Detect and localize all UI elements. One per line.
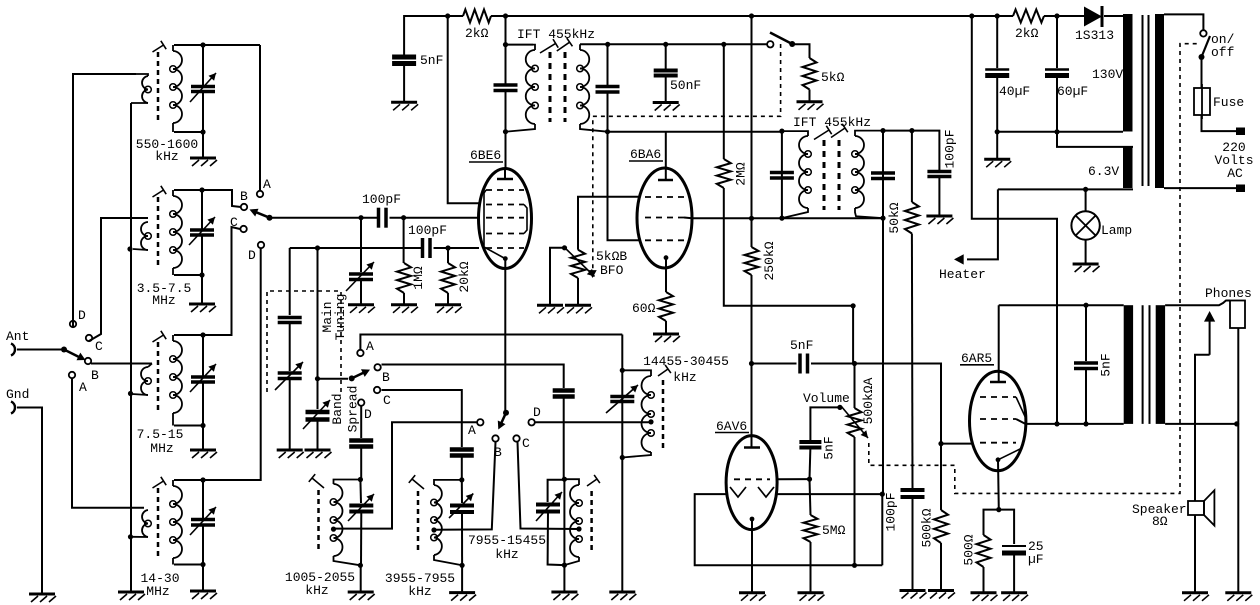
contact A S2	[257, 177, 271, 197]
wire 50nF drop	[665, 44, 667, 69]
svg-text:Fuse: Fuse	[1213, 95, 1244, 110]
label L7 unit	[495, 547, 518, 562]
coil L1 primary	[131, 74, 151, 103]
node mixer grid3	[358, 215, 363, 220]
node 6AV6 grid	[807, 477, 812, 482]
node bus 6BE6 screen	[445, 13, 450, 18]
wire IFT1 cap bot	[505, 91, 507, 132]
resistor R12 500ohm	[962, 534, 991, 567]
capacitor C9 50nF	[654, 71, 678, 76]
ground lamp	[1073, 240, 1100, 272]
ground osc tank	[609, 592, 636, 600]
wire L1 bottom	[174, 131, 203, 133]
variable capacitor C3a	[190, 364, 216, 392]
transformer T2 core	[1143, 305, 1150, 424]
label C14	[822, 436, 837, 459]
6AR5 cathode	[996, 449, 1021, 463]
svg-text:MHz: MHz	[152, 293, 175, 308]
capacitor C16 40uF	[985, 70, 1009, 76]
wire det line	[882, 218, 884, 494]
wire sec bottom	[1165, 423, 1237, 425]
ground C9	[653, 76, 680, 111]
fuse F1	[1194, 84, 1210, 119]
IFT1 slug marks	[540, 38, 572, 53]
wire 40uF bot	[996, 76, 998, 132]
svg-text:Lamp: Lamp	[1101, 223, 1132, 238]
ground BFO pot	[565, 278, 592, 313]
label BFO	[600, 263, 624, 278]
svg-text:60µF: 60µF	[1057, 84, 1088, 99]
wire 1M riser	[403, 218, 405, 263]
svg-text:2kΩ: 2kΩ	[1015, 26, 1039, 41]
wire D to L1 primary	[73, 74, 136, 327]
wire L2 top	[174, 190, 241, 207]
wire 6BA6 screen	[684, 217, 883, 220]
svg-text:kHz: kHz	[408, 584, 431, 599]
label fuse	[1213, 95, 1244, 110]
phones tip arrow	[1204, 311, 1215, 355]
node IFT2 sec top	[880, 128, 885, 133]
node 5nF out top	[1083, 303, 1088, 308]
wire diode left	[695, 494, 883, 565]
ground gnd terminal	[29, 594, 56, 602]
svg-text:MHz: MHz	[150, 441, 173, 456]
svg-text:100pF: 100pF	[362, 192, 401, 207]
IFT1 secondary coil	[577, 44, 608, 131]
wire pot top	[854, 364, 856, 409]
svg-text:6BE6: 6BE6	[470, 148, 501, 163]
wire 0V rail	[997, 131, 1123, 133]
wire 6AR5 plate	[998, 305, 1000, 372]
label C18	[1099, 353, 1114, 376]
node AVC 2M	[721, 42, 726, 47]
svg-text:60Ω: 60Ω	[632, 301, 656, 316]
wire C2a bottom	[201, 235, 203, 275]
svg-text:Ant: Ant	[6, 329, 29, 344]
node L7 tap	[576, 526, 581, 531]
slug T mark L4	[153, 477, 167, 488]
wire padder B down	[563, 397, 565, 480]
switch BFO arm	[770, 33, 795, 48]
svg-text:6AR5: 6AR5	[961, 351, 992, 366]
svg-text:5MΩ: 5MΩ	[822, 523, 846, 538]
svg-text:50kΩ: 50kΩ	[887, 202, 902, 233]
potentiometer 5kB BFO	[563, 246, 595, 278]
wire C1a bottom	[202, 93, 204, 132]
variable capacitor trimmer L6	[449, 494, 474, 519]
svg-text:20kΩ: 20kΩ	[457, 261, 472, 292]
IFT1 primary coil	[506, 45, 539, 132]
svg-text:Gnd: Gnd	[6, 387, 29, 402]
contact C S4	[513, 435, 530, 451]
label L3 unit	[150, 441, 173, 456]
wire IFT2 prim cap	[781, 131, 783, 218]
svg-text:6BA6: 6BA6	[630, 147, 661, 162]
capacitor C5 100pF	[379, 208, 387, 228]
ground L6	[449, 565, 476, 600]
svg-text:14455-30455: 14455-30455	[643, 354, 729, 369]
svg-text:kHz: kHz	[673, 370, 696, 385]
svg-text:C: C	[383, 393, 391, 408]
capacitor C14 5nF	[799, 442, 821, 448]
wire 6AR5 screen	[1016, 419, 1124, 424]
coil L1 secondary	[170, 45, 182, 132]
wire pot bottom	[854, 437, 856, 565]
resistor R11 500kohm	[920, 508, 949, 547]
node L1 top	[200, 42, 205, 47]
wire B to L3 primary	[91, 363, 152, 365]
wire 0V to 6.3V	[1057, 132, 1133, 147]
wire B+ bus	[404, 16, 463, 57]
svg-text:Heater: Heater	[939, 267, 986, 282]
dashed BFO link	[593, 44, 781, 273]
node L5 top	[358, 477, 363, 482]
wire mains top	[1164, 14, 1203, 30]
variable capacitor band spread	[303, 400, 330, 429]
terminal mains 1	[1236, 128, 1245, 136]
band switch S4 pole	[498, 410, 509, 430]
contact D S1	[70, 308, 86, 327]
capacitor IFT1 primary	[494, 85, 518, 91]
label L4 range	[140, 571, 179, 586]
node L3 top	[200, 332, 205, 337]
wire padder C down	[461, 456, 463, 480]
label band spread 2	[346, 386, 361, 433]
svg-text:MHz: MHz	[146, 584, 169, 599]
ground L5	[348, 565, 375, 600]
wire sec top	[1165, 301, 1230, 306]
label L8 unit	[673, 370, 696, 385]
wire C5 to tube	[390, 217, 479, 219]
wire C spread line	[382, 390, 462, 447]
IFT2 core	[824, 140, 839, 210]
variable capacitor C2a	[189, 217, 215, 245]
ground main B	[348, 280, 375, 313]
svg-text:100pF: 100pF	[884, 492, 899, 531]
node bus B+ out	[969, 13, 974, 18]
label L2 unit	[152, 293, 175, 308]
wire C to L2 primary	[89, 218, 148, 341]
resistor R6 5kohm	[803, 58, 845, 90]
wire screen drop	[448, 16, 479, 203]
wire 50k drop	[911, 131, 913, 202]
svg-text:100pF: 100pF	[408, 223, 447, 238]
label BFO pot	[596, 249, 627, 264]
ground 6AV6 cathode	[739, 593, 766, 601]
ground C11	[926, 177, 953, 225]
capacitor C13 5nF	[800, 354, 808, 374]
transformer T1 core	[1143, 15, 1149, 186]
band switch S3 pole	[349, 369, 370, 381]
node L4 primary return	[128, 534, 133, 539]
6BA6 plate bar	[658, 170, 673, 180]
node bus IFT2	[749, 13, 754, 18]
wire D spread line	[360, 406, 362, 438]
label L2 range	[137, 281, 192, 296]
wire 6BE6 cathode down	[504, 259, 506, 413]
wire L5 trimmer top	[359, 480, 362, 504]
label volume	[803, 391, 850, 406]
svg-text:5kΩB: 5kΩB	[596, 249, 627, 264]
ground speaker	[1182, 593, 1209, 601]
svg-text:5nF: 5nF	[822, 436, 837, 459]
core L4	[157, 488, 160, 556]
ground C12	[900, 591, 927, 599]
svg-text:Spread: Spread	[346, 386, 361, 433]
variable capacitor C1a	[190, 73, 216, 102]
label C15a	[1028, 539, 1044, 554]
wire IFT1 sec top	[580, 43, 608, 45]
coil L2 primary	[133, 222, 151, 250]
core L1	[157, 52, 160, 122]
wire 6AR5 cathode down	[997, 460, 1000, 510]
wire A S4 to tap	[334, 422, 478, 528]
node 0V 60uF	[1054, 129, 1059, 134]
node L2 primary return	[127, 246, 132, 251]
wire IFT1 cap top	[505, 45, 507, 85]
wire mains bottom	[1164, 187, 1236, 189]
svg-text:BFO: BFO	[600, 263, 624, 278]
label L1 unit	[155, 149, 178, 164]
ground C7	[391, 64, 418, 111]
wire gang A mid	[289, 323, 291, 372]
ground BFO wiper	[537, 305, 564, 313]
slug T mark L3	[153, 331, 167, 342]
label main tuning 1	[320, 301, 335, 332]
wire grid to 6AR5	[941, 443, 973, 445]
node 6AR5 grid	[938, 441, 943, 446]
IFT2 secondary coil	[852, 131, 883, 219]
switch on-off arm	[1199, 36, 1211, 60]
node AVC top	[605, 42, 610, 47]
ground R7	[653, 321, 680, 342]
slug T mark L7	[587, 475, 600, 486]
wire grid lead	[777, 478, 810, 480]
label C16	[999, 84, 1030, 99]
node osc grid	[445, 245, 450, 250]
svg-text:A: A	[79, 380, 87, 395]
tube 6AV6 envelope	[726, 436, 777, 530]
wire L1 top	[174, 44, 260, 46]
svg-text:D: D	[364, 407, 372, 422]
wire tuneB riser	[360, 218, 362, 272]
label L3 range	[137, 427, 184, 442]
label band spread 1	[330, 393, 345, 424]
node L7 bottom	[562, 563, 567, 568]
ground R12	[971, 567, 998, 601]
wire D S4 to tap	[535, 421, 651, 423]
wire 6.3V line	[998, 188, 1133, 190]
label L1 range	[136, 137, 198, 152]
wire C6 to tube	[434, 247, 480, 249]
heater arrow	[954, 254, 964, 264]
lamp	[1071, 211, 1099, 239]
wire 50k to 100pF	[911, 234, 914, 489]
svg-text:6.3V: 6.3V	[1088, 164, 1119, 179]
coil L7 7955-15455	[564, 479, 582, 565]
wire pole line	[318, 378, 349, 380]
band switch S1 pole	[61, 347, 86, 361]
node cathode net	[996, 507, 1001, 512]
label D1	[1075, 28, 1114, 43]
variable capacitor trimmer L7	[536, 492, 562, 521]
svg-text:1S313: 1S313	[1075, 28, 1114, 43]
svg-text:B: B	[382, 370, 390, 385]
contact C S2	[230, 215, 247, 232]
label main tuning 2	[333, 294, 348, 341]
contact A S3	[357, 339, 374, 356]
label IFT1	[517, 27, 595, 42]
capacitor C6 100pF	[423, 238, 431, 258]
wire A to L4 primary	[72, 378, 144, 508]
wire lamp drop	[1085, 189, 1087, 211]
speaker	[1188, 490, 1214, 525]
wire bus after R1	[491, 15, 1013, 17]
svg-text:50nF: 50nF	[670, 78, 701, 93]
svg-text:kHz: kHz	[495, 547, 518, 562]
ground R11	[928, 543, 955, 599]
variable capacitor C4a	[190, 507, 216, 535]
wire 5M top	[810, 479, 811, 515]
wire IFT1 feed	[505, 16, 507, 45]
svg-text:250kΩ: 250kΩ	[762, 241, 777, 280]
svg-text:Volume: Volume	[803, 391, 850, 406]
label speaker imp	[1152, 514, 1168, 529]
resistor R8 50kohm	[887, 202, 919, 234]
capacitor C15 25uF	[1002, 546, 1026, 553]
capacitor IFT2 secondary	[871, 173, 895, 179]
IFT2 primary coil	[782, 131, 811, 218]
wire det to C13	[752, 363, 797, 365]
node volume wiper	[837, 405, 842, 410]
node 5nF out bottom	[1083, 421, 1088, 426]
svg-text:B: B	[91, 368, 99, 383]
wire L1 primary bottom bus	[130, 103, 132, 592]
wire 6AV6 plate lead	[751, 364, 753, 437]
node L8 tap	[648, 419, 653, 424]
label L5 unit	[305, 583, 328, 598]
node L4 bottom	[200, 562, 205, 567]
core L7	[590, 491, 593, 553]
node IFT1 prim bottom	[503, 129, 508, 134]
wire 20k riser	[447, 248, 449, 263]
ground L4	[190, 565, 217, 600]
node diode return	[880, 492, 885, 497]
resistor R1 2kohm	[463, 10, 491, 42]
ground phones	[1225, 593, 1252, 601]
coil L2 secondary	[170, 190, 182, 275]
node L6 bottom	[460, 563, 465, 568]
capacitor C18 5nF	[1074, 363, 1098, 369]
node BFO pot wiper	[562, 245, 567, 250]
label lamp	[1101, 223, 1132, 238]
6AR5 g3 tie	[1016, 397, 1026, 418]
slug T mark L6	[409, 475, 424, 489]
ground band spread	[305, 420, 332, 459]
node IFT1 sec bottom	[605, 129, 610, 134]
slug T mark L8	[658, 365, 671, 376]
variable capacitor osc	[606, 385, 638, 413]
wire L4 top	[174, 248, 261, 480]
6BE6 grid rows	[486, 190, 524, 248]
wire BFO pot top	[578, 197, 639, 250]
phones jack	[1230, 301, 1245, 329]
node sec bottom	[1234, 421, 1239, 426]
wire heater line	[967, 189, 998, 259]
svg-text:D: D	[78, 308, 86, 323]
label 220	[1222, 140, 1245, 155]
6BE6 screen tie	[524, 205, 527, 234]
contact D S2	[248, 242, 264, 263]
core L3	[157, 342, 160, 412]
svg-text:5nF: 5nF	[420, 53, 443, 68]
wire L3 bottom	[174, 425, 203, 427]
node L2 top	[199, 187, 204, 192]
ground R3	[435, 293, 462, 313]
node L7 top	[562, 477, 567, 482]
wire B+ drop IFT2	[751, 16, 753, 218]
capacitor C12 100pF	[901, 490, 925, 497]
coil L6 3955-7955	[431, 480, 462, 565]
node AVC 50nF	[663, 42, 668, 47]
node after C5	[401, 215, 406, 220]
wire det return up	[881, 494, 883, 565]
wire 6BA6 cathode down	[665, 258, 667, 292]
transformer T1 primary winding	[1155, 14, 1164, 188]
wire 60uF bot	[1056, 76, 1058, 132]
wire wiper to 5nF	[810, 407, 840, 440]
ground L7	[551, 565, 578, 600]
wire 6BE6 plate	[505, 132, 507, 169]
node volume top	[852, 361, 857, 366]
capacitor C17 60uF	[1045, 70, 1069, 76]
node det out	[749, 361, 754, 366]
ground gang A	[277, 379, 304, 459]
svg-text:1MΩ: 1MΩ	[411, 266, 426, 290]
svg-text:Tuning: Tuning	[333, 294, 348, 341]
wire sec top to 100pF	[883, 131, 939, 170]
ground R2	[391, 293, 418, 313]
label 6BE6	[469, 148, 503, 163]
contact B S3	[374, 364, 390, 385]
wire B spread line	[382, 365, 564, 389]
wire BFO sw to 5k	[792, 44, 809, 58]
wire cathode right	[999, 510, 1014, 544]
wire gang A top	[289, 248, 291, 315]
label IFT2	[793, 115, 871, 130]
node osc tank bottom	[620, 455, 625, 460]
wire 60uF drop	[1056, 16, 1058, 68]
label phones	[1205, 286, 1252, 301]
node bus IFT1	[503, 13, 508, 18]
BFO dashed arrowhead	[588, 270, 596, 278]
potentiometer volume 500kA	[841, 406, 868, 438]
node IFT2 prim bottom	[779, 216, 784, 221]
node 50k top	[909, 128, 914, 133]
transformer T2 secondary	[1156, 305, 1165, 424]
resistor R9 250kohm	[745, 241, 778, 280]
wire plate line	[999, 304, 1124, 306]
wire AVC to volume	[724, 188, 853, 364]
resistor R5 2Mohm	[717, 159, 749, 188]
label C15b	[1028, 552, 1044, 567]
dashed gang box	[267, 291, 341, 392]
wire IFT1 sec cap top	[607, 44, 609, 86]
svg-text:2kΩ: 2kΩ	[465, 26, 489, 41]
capacitor C7 5nF	[392, 57, 416, 64]
ground L2	[189, 275, 216, 312]
node L6 top	[459, 477, 464, 482]
